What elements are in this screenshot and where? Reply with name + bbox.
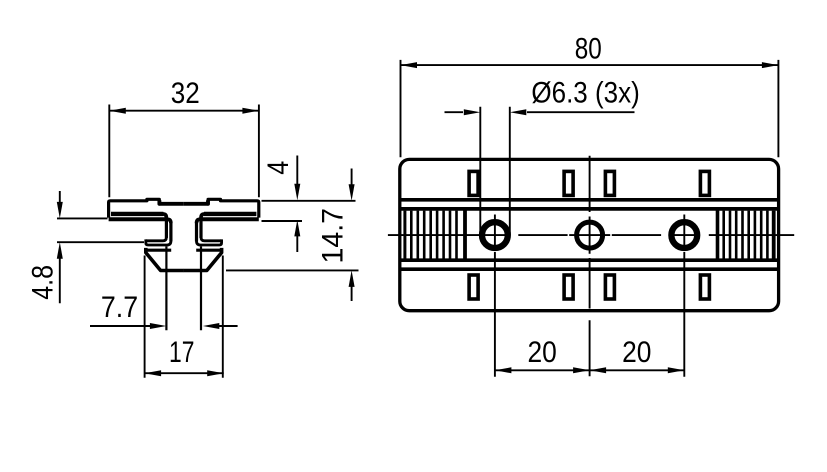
svg-text:17: 17 (169, 336, 194, 369)
dimension 17: dimension line with arrows (145, 370, 224, 376)
left view: profile bottom outer surface line (left half) (109, 217, 168, 221)
left view: mirrored right half of profile (184, 199, 259, 377)
left view: profile outer bend corner (left half) (167, 219, 171, 223)
top view: outer body rounded rectangle (400, 159, 779, 310)
dimension 20 (left): extension line (494, 252, 496, 377)
top view: upper groove lines (401, 200, 779, 209)
top view: vertical centerline through middle hole (chain) (589, 156, 591, 377)
left view: 17 extension line (left) (144, 256, 146, 378)
left view: profile outer wall line (left half) (169, 222, 172, 241)
top view: left serration block (405, 209, 465, 260)
dimension 32: extension lines (109, 105, 259, 198)
left view: profile sheet inner bottom line (left half) (111, 212, 163, 216)
left view: profile foot top line (left half) (146, 237, 166, 241)
svg-text:20: 20 (528, 336, 557, 369)
left view: profile sheet outer contour (left half) (109, 199, 259, 377)
dimension 14.7: extension line bottom (226, 269, 359, 271)
top view: hole 3 (right, bold) (671, 222, 697, 248)
dimension hole diameter: dimension line with outside arrows and leader (445, 109, 635, 115)
svg-text:4.8: 4.8 (27, 265, 60, 300)
svg-text:20: 20 (622, 336, 651, 369)
dimension 20 (right): extension line (683, 252, 685, 377)
dimension 14.7: dimension line with outside arrows (349, 169, 355, 302)
dimension hole diameter: extension lines (480, 107, 510, 235)
svg-text:4: 4 (262, 161, 295, 175)
dimension 80: dimension line with arrows (401, 62, 779, 68)
svg-text:80: 80 (575, 32, 602, 65)
left view: profile inner wall line (left half) (165, 217, 168, 238)
dimension 20 pair: dimension line with arrows (495, 367, 684, 373)
left view: profile inner bend corner (left half) (163, 214, 167, 218)
top view: hole 1 crosshair (494, 215, 496, 251)
dimension 80: extension lines (401, 60, 779, 157)
left view: wall edge / 7.7 extension line (left) (165, 246, 167, 330)
dimension 4: extension lines (262, 201, 356, 221)
left view: clamping pan rim (left half) (146, 249, 171, 252)
top view: upper band slots (4) (469, 171, 709, 195)
left view: profile foot bottom line (left half) (146, 239, 171, 245)
top view: hole 3 crosshair (683, 215, 685, 251)
dimension 4.8: extension lines (57, 218, 144, 242)
dimension 32: dimension line with arrows (109, 108, 259, 114)
dimension 7.7: dimension line with outside arrows (90, 323, 238, 329)
left view: clamping pan outline (left half) (146, 248, 184, 271)
top view: lower band slots (4) (469, 275, 709, 299)
dimension 4.8: dimension line with outside arrows (57, 191, 63, 303)
top view: hole 1 (left, bold) (482, 222, 508, 248)
top view: hole 2 (middle) (577, 222, 603, 248)
top view: right serration block (718, 209, 774, 260)
top view: lower groove lines (401, 260, 779, 269)
top view: horizontal centerline (chain) (388, 234, 794, 236)
svg-text:32: 32 (171, 77, 200, 110)
left view: profile top recessed middle segment (left half) (159, 200, 183, 204)
dimension 4: dimension line with outside arrows (294, 156, 300, 253)
svg-text:7.7: 7.7 (101, 291, 138, 324)
svg-text:Ø6.3 (3x): Ø6.3 (3x) (531, 77, 639, 110)
svg-text:14.7: 14.7 (317, 208, 350, 264)
